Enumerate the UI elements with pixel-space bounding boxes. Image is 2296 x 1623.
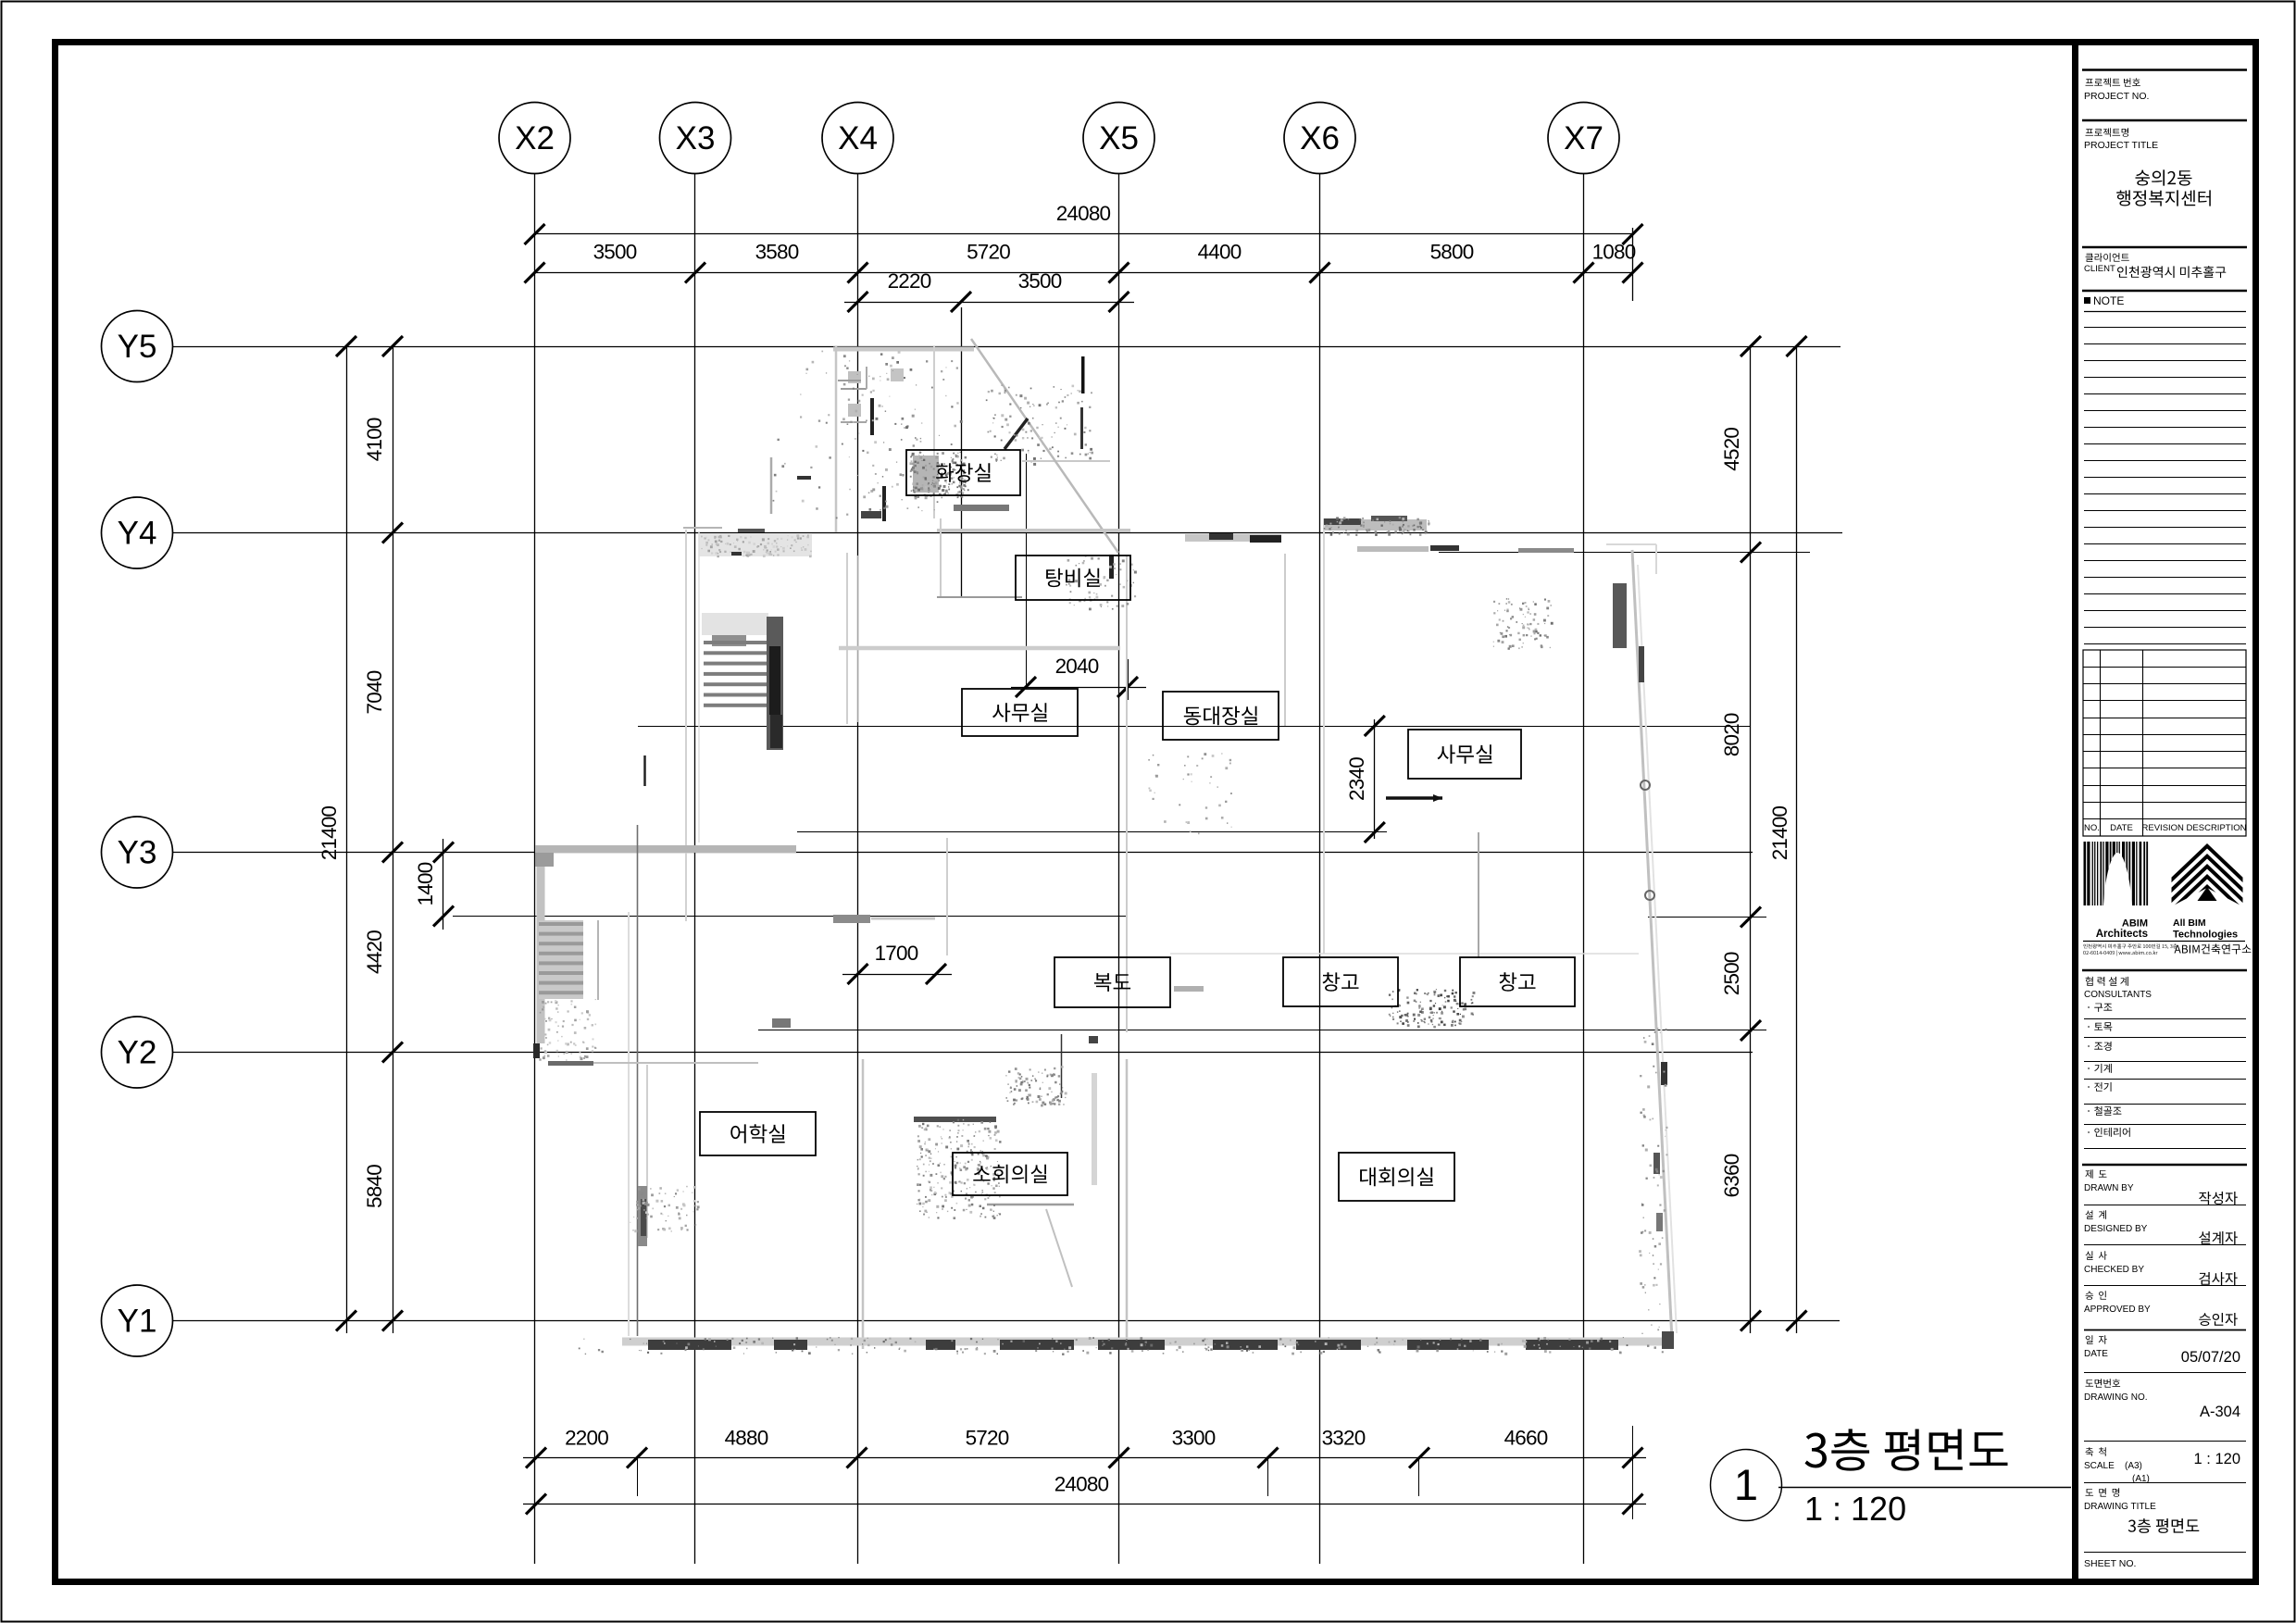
svg-text:1400: 1400 [414, 862, 437, 905]
speckle left wing stairs [539, 999, 596, 1061]
grid line X7 [1583, 174, 1585, 1565]
speckle right edge lower [1639, 1028, 1667, 1334]
svg-text:3320: 3320 [1322, 1427, 1366, 1450]
svg-text:CONSULTANTS: CONSULTANTS [2084, 990, 2152, 1000]
scan bent line small meeting room [987, 1204, 1074, 1206]
scan wall right block left edge [1323, 518, 1325, 954]
interior line y784 [638, 726, 1751, 728]
scan wall y645 [937, 596, 1022, 598]
speckle right top band [1324, 517, 1430, 536]
interior line y899 [797, 831, 1387, 833]
titleblock consultants section [2082, 969, 2247, 972]
titleblock client section [2082, 246, 2247, 249]
speckle above small meeting room [1005, 1066, 1067, 1106]
bottom tick extension lines [637, 1458, 639, 1497]
svg-text:3500: 3500 [593, 241, 637, 264]
svg-text:DRAWING TITLE: DRAWING TITLE [2084, 1502, 2156, 1512]
svg-text:PROJECT NO.: PROJECT NO. [2084, 91, 2149, 102]
scan wall divider xi1388 [1284, 554, 1286, 726]
room label box 동대장실 [1163, 692, 1279, 740]
dimension overall 24080 bottom [523, 1504, 1646, 1505]
dark arrow office right [1386, 796, 1442, 800]
extension line y1113 [758, 1030, 1766, 1031]
svg-text:DRAWN BY: DRAWN BY [2084, 1183, 2134, 1193]
svg-text:4660: 4660 [1504, 1427, 1548, 1450]
grid line X2 [534, 174, 536, 1565]
dimension chain right 4520/8020/2500/6360 [1750, 346, 1752, 1333]
scan wall y573 pantry top [937, 529, 1130, 532]
extension line x1038 [961, 307, 963, 596]
scan wall right block top bands [1323, 519, 1427, 531]
scan wall diagonal roof edge [971, 339, 1118, 553]
grid bubble Y5 [102, 311, 173, 382]
logo All BIM Technologies chevron [2172, 843, 2243, 923]
scan wall right outer slanted [1632, 550, 1672, 1340]
svg-text:4880: 4880 [725, 1427, 768, 1450]
svg-text:24080: 24080 [1056, 202, 1111, 225]
dimension overall 21400 left [346, 346, 348, 1333]
svg-text:5720: 5720 [967, 241, 1010, 264]
scan walls toilet area extra [770, 457, 773, 514]
svg-text:REVISION DESCRIPTION: REVISION DESCRIPTION [2142, 823, 2247, 833]
svg-text:5720: 5720 [966, 1427, 1009, 1450]
drawing title underline [1778, 1487, 2071, 1489]
svg-text:Y1: Y1 [118, 1304, 157, 1340]
room label box 대회의실 [1339, 1153, 1454, 1201]
speckle toilet fixtures [910, 452, 967, 500]
svg-text:Y2: Y2 [118, 1035, 157, 1071]
dimension overall 21400 right [1796, 346, 1798, 1333]
svg-text:X4: X4 [838, 120, 878, 156]
titleblock drawing no row [2086, 1379, 2121, 1387]
scan wall left wing outer [537, 853, 545, 1043]
svg-text:2220: 2220 [888, 269, 931, 293]
scan wall room dividers bottom [862, 1059, 865, 1349]
extension line y990 right [1648, 917, 1766, 918]
dark marks toilet area [870, 398, 874, 435]
room label box 창고 [1283, 957, 1398, 1006]
svg-text:DESIGNED BY: DESIGNED BY [2084, 1224, 2148, 1234]
titleblock project no section [2082, 69, 2247, 71]
scan wall y698 office top [839, 646, 1120, 651]
titleblock sign rows [2082, 1164, 2247, 1167]
titleblock project title section [2082, 119, 2247, 122]
titleblock scale row [2086, 1447, 2106, 1456]
dimension 2040 [1011, 687, 1146, 689]
svg-text:X2: X2 [515, 120, 555, 156]
dimension chain top 3500/3580/5720/4400/5800/1080 [535, 272, 1633, 274]
svg-text:1 : 120: 1 : 120 [2194, 1451, 2240, 1467]
svg-text:X3: X3 [676, 120, 716, 156]
svg-text:1 : 120: 1 : 120 [1804, 1490, 1906, 1528]
dark strip language room left [638, 1186, 647, 1246]
titleblock date row [2086, 1335, 2107, 1344]
dimension chain 2220/3500 [844, 302, 1134, 304]
scan wall x688 dark [637, 825, 639, 1336]
ABIM research text [2175, 944, 2252, 955]
svg-text:X5: X5 [1099, 120, 1139, 156]
speckle small meeting room top [917, 1119, 1001, 1219]
svg-text:SCALE: SCALE [2084, 1461, 2115, 1471]
svg-text:Y4: Y4 [118, 516, 157, 552]
scan walls upper block [833, 347, 974, 352]
room label box 어학실 [700, 1112, 816, 1155]
room label box 복도 [1054, 957, 1170, 1007]
svg-text:SHEET NO.: SHEET NO. [2084, 1558, 2136, 1569]
svg-text:4100: 4100 [363, 418, 386, 461]
extension line x1218 [1128, 659, 1129, 700]
scan wall dashes on y990 near X4 [833, 915, 870, 923]
svg-text:Technologies: Technologies [2173, 930, 2238, 941]
svg-text:3580: 3580 [755, 241, 799, 264]
scan wall y1146 left wing [548, 1062, 758, 1064]
scan walls mid-left block [699, 533, 812, 556]
speckle toilet upper walls [843, 353, 969, 511]
dark blob pantry box [1109, 555, 1114, 579]
grid bubble Y1 [102, 1285, 173, 1356]
grid line X3 [694, 174, 696, 1565]
svg-text:3500: 3500 [1018, 269, 1062, 293]
grid bubble Y2 [102, 1017, 173, 1088]
speckle bottom band [579, 1337, 1664, 1355]
svg-text:24080: 24080 [1054, 1473, 1109, 1496]
grid bubble X6 [1284, 103, 1355, 174]
scan wall corridor top y1030 [1170, 953, 1639, 955]
svg-text:(A3): (A3) [2125, 1461, 2142, 1471]
dimension chain left 4100/7040/4420/5840 [393, 346, 394, 1333]
room label box 창고 [1460, 957, 1575, 1006]
svg-text:3300: 3300 [1172, 1427, 1216, 1450]
speckle mid block top band [701, 534, 812, 557]
speckle right block NW [1493, 598, 1554, 650]
grid line X5 [1118, 174, 1120, 1565]
extension line y990 [453, 916, 1126, 918]
speckle language room [630, 1186, 699, 1232]
svg-text:5840: 5840 [363, 1165, 386, 1208]
svg-text:DATE: DATE [2084, 1349, 2108, 1359]
grid bubble X5 [1083, 103, 1154, 174]
grid line Y2 [173, 1052, 1753, 1054]
svg-text:7040: 7040 [363, 670, 386, 714]
grid bubble Y4 [102, 497, 173, 568]
grid bubble X2 [499, 103, 570, 174]
room label box 소회의실 [953, 1153, 1067, 1195]
svg-text:4400: 4400 [1198, 241, 1242, 264]
svg-text:ABIM: ABIM [2122, 918, 2148, 930]
drawing title text [1805, 1429, 2008, 1470]
grid line X6 [1319, 174, 1321, 1565]
scan smudge corridor right of label [1174, 986, 1204, 992]
grid line Y4 [173, 532, 1843, 534]
svg-text:1700: 1700 [875, 942, 918, 965]
grid bubble X3 [660, 103, 731, 174]
dimension chain bottom 2200/4880/5720/3300/3320/4660 [523, 1457, 1646, 1459]
svg-text:A-304: A-304 [2200, 1404, 2240, 1420]
speckle toilet room top [986, 384, 1093, 466]
svg-text:NO.: NO. [2084, 823, 2100, 833]
titleblock revision table [2083, 650, 2246, 836]
svg-text:21400: 21400 [318, 805, 341, 860]
logo ABIM Architects barcode [2084, 842, 2149, 905]
logo divider line [2083, 941, 2245, 943]
svg-text:6360: 6360 [1720, 1154, 1743, 1197]
grid bubble X4 [822, 103, 893, 174]
dark dash small meeting room top [914, 1117, 996, 1122]
dark corner marks near X4 Y4 [861, 511, 881, 518]
stair block treads upper [702, 613, 768, 635]
scan wall left wing band y911 [535, 845, 796, 853]
extension line right end of top chain [1632, 228, 1634, 301]
scan line x1146 dark [1061, 1034, 1063, 1098]
svg-text:Architects: Architects [2096, 929, 2148, 940]
grid line Y3 [173, 852, 1753, 854]
room label box 탕비실 [1016, 556, 1130, 600]
grid bubble X7 [1548, 103, 1619, 174]
svg-text:X6: X6 [1300, 120, 1340, 156]
svg-text:2500: 2500 [1720, 952, 1743, 995]
title block divider thick line [2072, 45, 2078, 1579]
extension line x1108 [1026, 454, 1028, 687]
extension line y596 [1439, 552, 1810, 554]
svg-text:Y3: Y3 [118, 835, 157, 871]
svg-text:All BIM: All BIM [2173, 918, 2206, 929]
dark dashes right block top wall [1209, 533, 1233, 540]
svg-text:1080: 1080 [1592, 241, 1636, 264]
speckle upper area scatter [773, 351, 923, 519]
svg-text:CHECKED BY: CHECKED BY [2084, 1265, 2144, 1275]
scan walls around X4 [846, 553, 848, 724]
dimension 1400 [443, 839, 444, 930]
svg-text:DATE: DATE [2110, 823, 2133, 833]
svg-text:DRAWING NO.: DRAWING NO. [2084, 1392, 2148, 1403]
drawing title bubble 1 [1711, 1450, 1782, 1521]
scan wall x1217 corridor [1126, 556, 1128, 1032]
dark marks right edge [1639, 646, 1644, 682]
speckle hallway scatter [1148, 753, 1232, 834]
grid line Y1 [173, 1320, 1841, 1322]
dark column X6 top [1613, 583, 1627, 648]
svg-text:2040: 2040 [1055, 655, 1099, 678]
room label box 화장실 [906, 450, 1020, 495]
grid line X4 [857, 174, 859, 1565]
room label box 사무실 [1408, 730, 1521, 779]
scan wall storage divider [1478, 832, 1479, 957]
speckle pantry area [1066, 556, 1137, 610]
svg-text:8020: 8020 [1720, 713, 1743, 756]
dark dashes bottom edge [648, 1340, 731, 1350]
dimension 1700 [842, 974, 952, 976]
svg-text:21400: 21400 [1768, 805, 1791, 860]
svg-text:CLIENT: CLIENT [2084, 264, 2115, 274]
svg-text:05/07/20: 05/07/20 [2181, 1349, 2240, 1366]
svg-text:2340: 2340 [1345, 757, 1368, 801]
svg-text:X7: X7 [1564, 120, 1603, 156]
titleblock note section [2082, 290, 2247, 293]
grid line Y5 [173, 346, 1841, 348]
svg-text:4420: 4420 [363, 930, 386, 974]
speckle storage area dark [1389, 989, 1476, 1029]
svg-text:APPROVED BY: APPROVED BY [2084, 1305, 2151, 1315]
dimension overall 24080 top [535, 233, 1633, 235]
stair dark side strip [767, 617, 783, 750]
address small text [2083, 943, 2177, 949]
svg-text:1: 1 [1734, 1460, 1758, 1509]
dimension 2340 [1374, 719, 1376, 839]
titleblock drawing title row [2086, 1488, 2120, 1497]
svg-text:5800: 5800 [1430, 241, 1474, 264]
scan wall bottom band [622, 1338, 1672, 1346]
svg-text:2200: 2200 [565, 1427, 608, 1450]
stairs left wing treads [539, 920, 583, 999]
svg-text:PROJECT TITLE: PROJECT TITLE [2084, 140, 2158, 151]
svg-text:4520: 4520 [1720, 428, 1743, 471]
grid bubble Y3 [102, 817, 173, 888]
svg-text:Y5: Y5 [118, 329, 157, 365]
svg-text:NOTE: NOTE [2093, 294, 2124, 307]
room label box 사무실 [962, 689, 1078, 736]
